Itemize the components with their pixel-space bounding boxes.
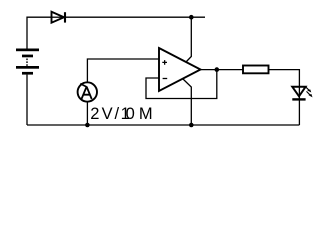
wire: resistor to LED anode [269, 70, 300, 87]
svg-text:V: V [102, 105, 113, 123]
junction dot: ammeter branch / bottom rail [85, 123, 90, 128]
wire: op-amp output to resistor [201, 69, 244, 71]
resistor R1 [243, 66, 269, 74]
LED light emission arrows [306, 87, 313, 98]
label: 2 V / 10 M [90, 105, 152, 123]
LED D2 [292, 87, 305, 100]
wire: LED cathode to bottom rail [298, 100, 300, 126]
svg-text:2: 2 [90, 105, 99, 123]
svg-text:/: / [115, 105, 120, 123]
wire: battery negative down to bottom rail [26, 75, 28, 125]
op-amp U1 [159, 48, 201, 91]
ammeter M1 [78, 82, 97, 101]
wire: bottom rail [27, 124, 299, 126]
junction dot: op-amp V- pin / bottom rail [189, 123, 194, 128]
wire: ammeter top up and right to op-amp non-inverting input [87, 59, 159, 82]
wire: op-amp V- supply pin down to bottom rail [183, 79, 191, 125]
diode D1 [52, 12, 66, 23]
wire: feedback from inverting input to output node [146, 70, 217, 99]
junction dot: top rail / op-amp V+ pin [189, 15, 194, 20]
svg-text:0: 0 [126, 105, 135, 123]
wire: battery positive up to top rail and right to diode anode [27, 17, 52, 48]
battery B1 [16, 49, 39, 75]
wire: diode cathode along top rail to stub end [65, 16, 205, 18]
wire: ammeter bottom to bottom rail [86, 102, 88, 125]
svg-text:M: M [139, 105, 153, 123]
wire: op-amp V+ supply pin [186, 17, 191, 62]
junction dot: output / feedback [215, 67, 220, 72]
